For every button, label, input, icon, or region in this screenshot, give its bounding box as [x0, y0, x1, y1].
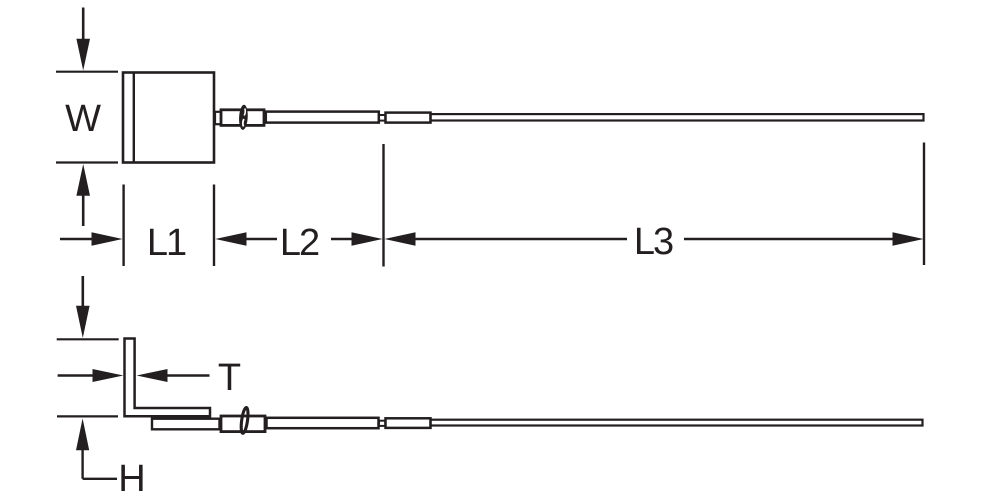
strain-relief clip loop (top view)	[238, 104, 248, 130]
dim L1 arrow (right-pointing)	[60, 232, 123, 246]
dim L3 right extension line	[923, 143, 925, 266]
dim H arrow (up) with leader to label	[76, 418, 117, 478]
crimp sleeve (side view)	[221, 416, 265, 432]
dim L3 arrow (right-pointing)	[684, 232, 924, 246]
dim L2/L3 shared extension line	[382, 144, 384, 267]
dim T arrow (right-pointing)	[58, 369, 124, 382]
bracket top extension line	[57, 338, 119, 340]
probe tube 1 (top view)	[266, 112, 379, 123]
sensor body (top view)	[123, 73, 214, 163]
dim W top extension line	[56, 71, 118, 73]
svg-text:L1: L1	[147, 222, 186, 264]
probe tube 1 (side view)	[267, 418, 379, 428]
L-bracket body (side view)	[125, 339, 211, 417]
dim T arrow (left-pointing)	[137, 369, 210, 382]
cable (top view)	[431, 114, 924, 120]
svg-text:T: T	[218, 357, 241, 399]
dim L2 arrow (left-pointing)	[215, 232, 277, 246]
dim W arrow (down)	[76, 8, 90, 71]
reduction neck (top view)	[379, 115, 385, 121]
svg-text:W: W	[65, 98, 101, 140]
strain-relief clip loop (side view)	[240, 407, 249, 434]
dim arrow above bracket (down)	[76, 276, 90, 338]
reduction neck (side view)	[379, 421, 385, 426]
crimp sleeve (top view)	[221, 110, 264, 126]
dim L2 arrow (right-pointing)	[331, 232, 383, 246]
lead stub between body and crimp sleeve	[215, 112, 221, 124]
probe tube 2 (side view)	[386, 418, 431, 428]
body inner edge line	[133, 73, 135, 163]
dim L1 right extension line	[213, 185, 215, 267]
svg-text:L3: L3	[634, 221, 673, 263]
dim W arrow (up)	[76, 164, 90, 226]
dim W bottom extension line	[56, 161, 118, 163]
cable (side view)	[431, 420, 923, 426]
lead sleeve (side view)	[152, 419, 220, 430]
dim H extension line	[57, 415, 118, 417]
svg-text:H: H	[118, 458, 145, 500]
dim L1 left extension line	[122, 185, 124, 267]
dim L3 arrow (left-pointing)	[384, 232, 627, 246]
svg-text:L2: L2	[280, 222, 319, 264]
probe tube 2 (top view)	[386, 113, 431, 123]
